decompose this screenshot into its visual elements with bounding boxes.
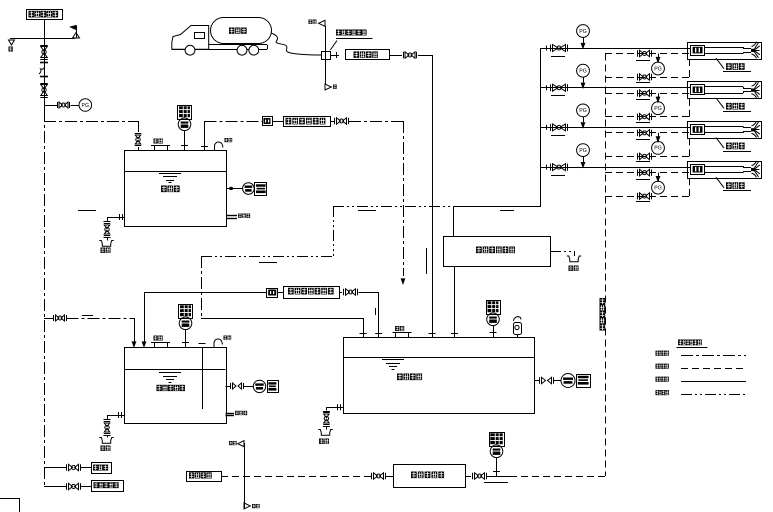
svg-text:PG: PG xyxy=(579,69,587,75)
svg-text:PG: PG xyxy=(654,66,662,72)
svg-text:PG: PG xyxy=(579,148,587,154)
svg-text:PG: PG xyxy=(579,29,587,35)
svg-text:PG: PG xyxy=(654,146,662,152)
svg-text:PG: PG xyxy=(654,185,662,191)
svg-text:PG: PG xyxy=(654,106,662,112)
svg-text:PG: PG xyxy=(579,108,587,114)
svg-text:PG: PG xyxy=(82,103,90,109)
